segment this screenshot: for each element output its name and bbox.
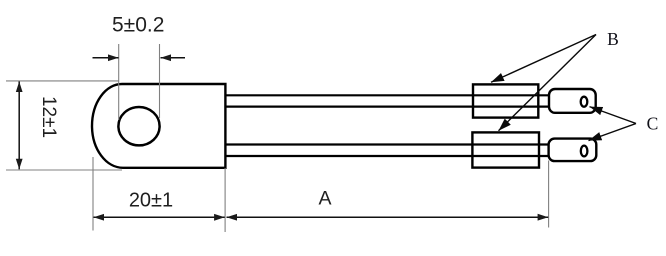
wire upper lead line top (225, 94, 549, 96)
svg-text:B: B (607, 29, 619, 49)
extension line top (12 dim) (6, 80, 119, 82)
dim line vertical (12 dim) (18, 82, 20, 170)
wire upper lead line bottom (225, 105, 549, 107)
extension line bottom (12 dim) (6, 169, 122, 171)
extension line middle (20/A dim) (224, 168, 226, 232)
upper terminal hole (581, 97, 588, 107)
extension line right (A dim) (548, 161, 550, 228)
upper terminal (549, 89, 596, 113)
lower terminal hole (581, 146, 588, 157)
leader C to upper terminal hole (590, 107, 637, 124)
svg-text:A: A (318, 188, 331, 210)
extension line left of hole (5 dim) (118, 44, 120, 120)
dim line (A dim) (227, 216, 549, 218)
wire lower lead line bottom (225, 155, 549, 157)
extension line right of hole (5 dim) (159, 44, 161, 118)
leader C to lower terminal hole (589, 124, 637, 141)
svg-text:12±1: 12±1 (38, 96, 59, 138)
svg-text:5±0.2: 5±0.2 (112, 14, 164, 37)
wire lower lead line top (225, 143, 549, 145)
lower sleeve (472, 132, 539, 167)
dim arrow right (5 dim) (161, 57, 186, 59)
upper sleeve (473, 84, 538, 117)
lower terminal (549, 139, 597, 162)
svg-text:20±1: 20±1 (129, 190, 173, 212)
leader B to lower sleeve (499, 35, 597, 131)
body mounting hole (118, 107, 159, 145)
extension line left (20 dim) (92, 157, 94, 231)
dim arrow left (5 dim) (93, 57, 119, 59)
body outline (92, 84, 225, 168)
leader B to upper sleeve (491, 35, 596, 83)
svg-text:C: C (647, 114, 659, 134)
dim line (20 dim) (94, 216, 225, 218)
